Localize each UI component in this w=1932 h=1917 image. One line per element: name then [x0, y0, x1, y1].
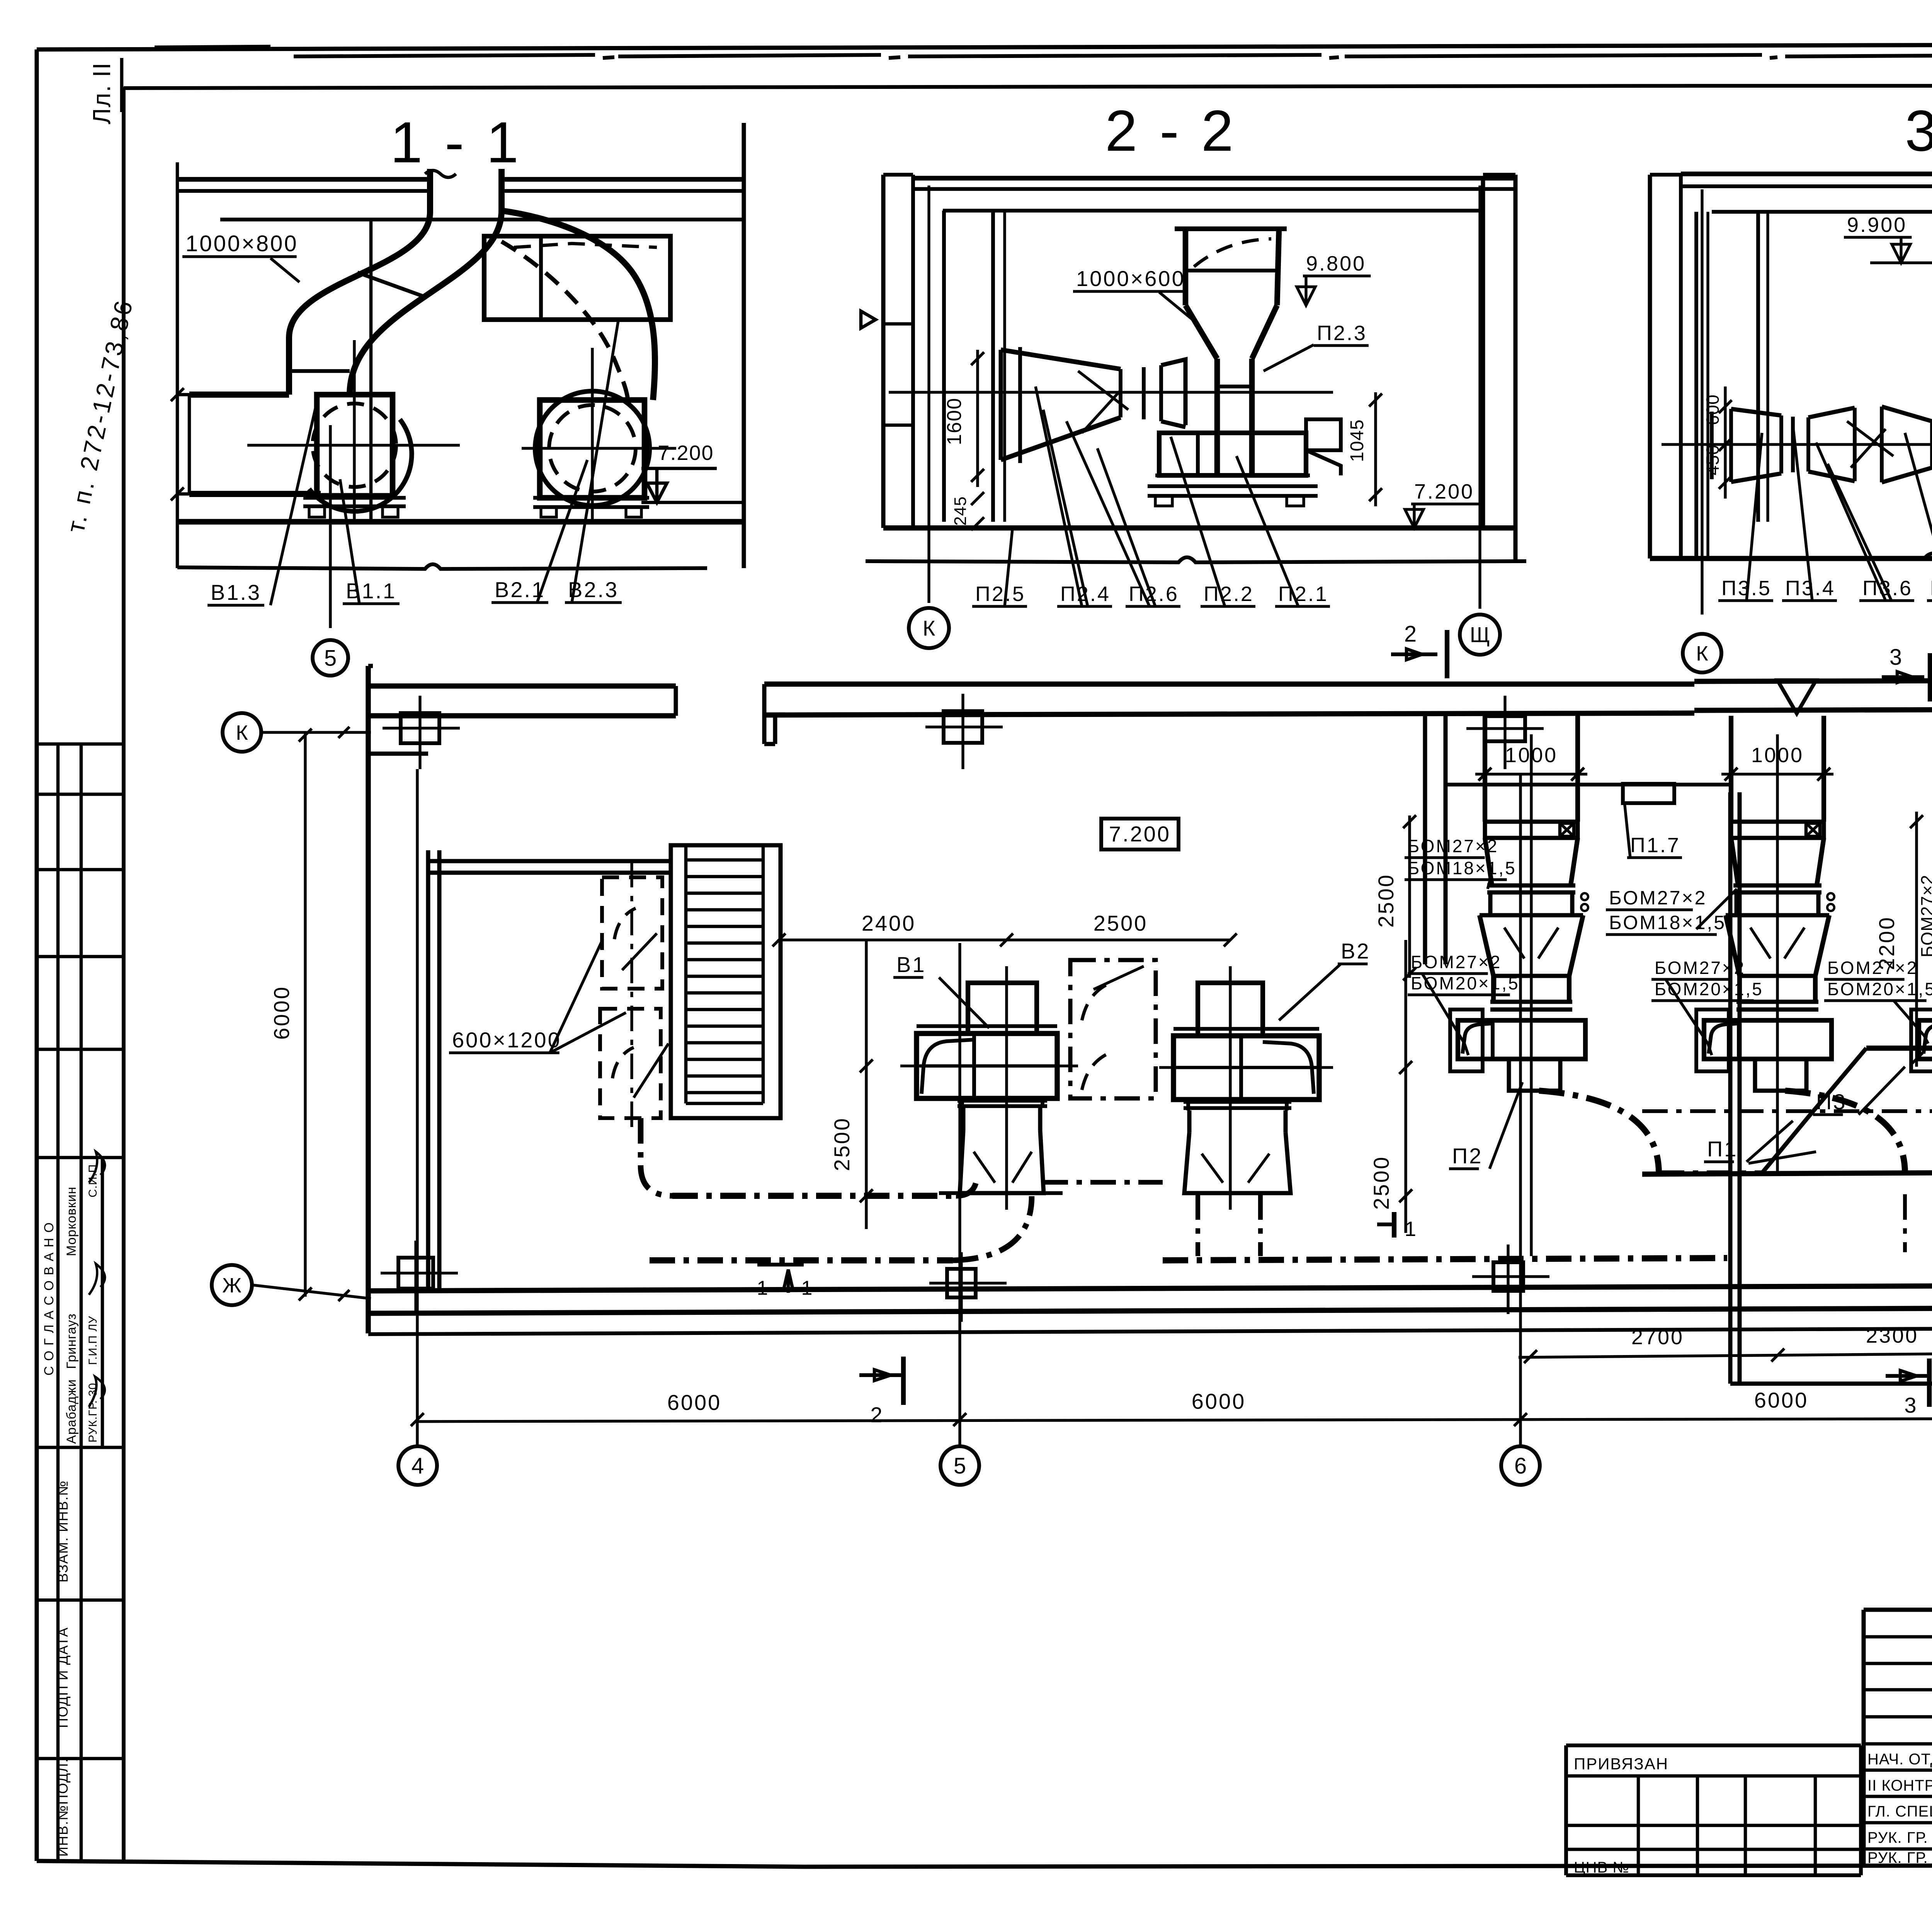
stair treads	[686, 858, 763, 862]
section 3-3 ceiling	[1681, 172, 1932, 176]
dim 2500 vertical V2	[1404, 940, 1407, 1233]
section 1-1 fan centerlines	[247, 444, 460, 446]
dim 2500 vertical V1	[865, 940, 867, 1229]
svg-text:3: 3	[1889, 645, 1903, 670]
svg-text:2500: 2500	[1374, 873, 1398, 928]
svg-text:П2.1: П2.1	[1278, 582, 1328, 606]
section 1-1 elbow flange joints	[357, 272, 427, 298]
left stamp column grid	[56, 744, 60, 1861]
top edge scan dashes	[155, 46, 270, 47]
svg-text:2500: 2500	[830, 1117, 854, 1171]
unit P2 fan block	[1458, 1020, 1585, 1059]
boxed level 7.200	[1101, 819, 1179, 850]
unit P1 fan side plate	[1696, 1010, 1729, 1071]
fan V2 centerlines	[1229, 966, 1231, 1210]
section 3-3 inlet diagonals	[1847, 421, 1893, 456]
svg-text:2: 2	[1404, 621, 1418, 647]
svg-text:Лл.: Лл.	[88, 84, 116, 124]
svg-text:1045: 1045	[1347, 419, 1367, 462]
svg-text:4: 4	[412, 1453, 424, 1478]
svg-text:1: 1	[757, 1277, 770, 1299]
section 1-1 right branch duct box	[484, 236, 670, 320]
section 1-1 fan B1.1 impeller dashed	[313, 403, 396, 487]
svg-text:1: 1	[801, 1277, 814, 1299]
plan column Zh5	[947, 1269, 976, 1297]
svg-text:В1.3: В1.3	[211, 580, 261, 604]
duct route from shafts vertical	[638, 1118, 644, 1165]
plan interior wall x1125	[426, 850, 430, 1291]
svg-text:БОМ27×2: БОМ27×2	[1827, 958, 1918, 978]
svg-text:Грингауз: Грингауз	[64, 1313, 79, 1369]
section 1-1 fan B2.1 base	[533, 496, 649, 500]
section 2-2 left wall	[881, 175, 886, 528]
shaft centerline	[630, 862, 633, 1132]
svg-text:6000: 6000	[1754, 1388, 1809, 1412]
cut mark 2 bottom	[859, 1373, 903, 1377]
unit P1 fan block	[1704, 1020, 1832, 1059]
svg-text:К: К	[236, 721, 248, 744]
fan V1 outlet diffuser	[960, 1130, 1044, 1193]
plan wall axis K lower line	[368, 713, 676, 718]
section 2-2 right wall	[1481, 178, 1485, 528]
fan V2 inlet stub	[1198, 983, 1263, 1036]
unit P2 duct from wall	[1483, 716, 1487, 822]
svg-text:2 - 2: 2 - 2	[1105, 98, 1236, 163]
svg-text:БОМ27×2: БОМ27×2	[1655, 958, 1745, 978]
svg-text:II: II	[88, 62, 116, 77]
duct route main upper	[672, 1193, 956, 1199]
dim 2400	[779, 938, 1007, 941]
section 1-1 floor line	[177, 519, 744, 525]
section 1-1 roof duct stub break	[425, 170, 456, 177]
section 2-2 diagonal leaders inside	[1078, 371, 1128, 410]
svg-text:П1: П1	[1707, 1137, 1738, 1161]
dim 6000 vertical left	[304, 732, 306, 1297]
section 1-1 duct elbow to B1 outer	[289, 212, 430, 395]
fan V1 inlet stub	[968, 983, 1037, 1033]
axis circle 4	[398, 1446, 437, 1485]
section 1-1 fan B2.1 scroll	[535, 391, 650, 506]
svg-text:Ж: Ж	[222, 1274, 241, 1297]
unit P2 upper taper	[1485, 838, 1492, 885]
svg-text:1: 1	[1405, 1217, 1418, 1241]
plan wall P-room left	[1423, 715, 1427, 964]
section 2-2 interior column lines	[942, 211, 946, 522]
svg-text:1000: 1000	[1505, 744, 1558, 767]
svg-text:II КОНТР.: II КОНТР.	[1867, 1777, 1932, 1794]
section 2-2 riser hidden damper	[1194, 239, 1271, 267]
svg-text:5: 5	[324, 645, 337, 671]
unit P3 fan side plate	[1911, 1010, 1932, 1071]
svg-text:БОМ27×2: БОМ27×2	[1609, 887, 1707, 909]
svg-text:К: К	[923, 616, 935, 640]
section 1-1 interior edge line	[369, 220, 373, 522]
fan V2 casing	[1173, 1036, 1319, 1100]
section 1-1 fan B2.1 right branch outer	[502, 211, 655, 400]
unit P1 centerline	[1776, 734, 1779, 1173]
fan V2 hidden duplicate dashed	[1070, 960, 1156, 1098]
fan V1 diffuser vanes	[974, 1152, 995, 1183]
svg-text:П3.6: П3.6	[1862, 577, 1913, 600]
unit P2 flange band	[1485, 822, 1578, 838]
duct route elbow lower to V1	[953, 1196, 1032, 1260]
fan V2 outlet duct	[1187, 1110, 1192, 1132]
section 1-1 right wall	[742, 123, 746, 568]
svg-text:С О Г Л А С О В А Н О: С О Г Л А С О В А Н О	[42, 1222, 56, 1376]
section 2-2 cone to throat	[1185, 305, 1217, 359]
duct route stair elbow	[641, 1165, 672, 1196]
cut mark 1 arrows bottom	[757, 1263, 804, 1267]
svg-text:т. п. 272-12-73,86: т. п. 272-12-73,86	[61, 296, 138, 535]
section 3-3 horizontal inlet train	[1710, 412, 1714, 479]
svg-text:5: 5	[954, 1453, 966, 1478]
section 1-1 dim ticks left	[177, 393, 201, 397]
svg-text:БОМ18×1,5: БОМ18×1,5	[1609, 912, 1726, 933]
route main from P units	[1659, 1170, 1762, 1175]
svg-text:П2: П2	[1452, 1144, 1483, 1168]
svg-text:БОМ27×2: БОМ27×2	[1411, 952, 1502, 972]
fan V1 casing	[917, 1033, 1057, 1098]
section 3-3 inlet centerline	[1662, 443, 1932, 446]
fan V2 flex connector	[1186, 1100, 1190, 1110]
unit P3 fan block	[1919, 1020, 1932, 1059]
section 1-1 right branch hidden lines	[514, 243, 657, 247]
svg-text:РУК.ГР. 30: РУК.ГР. 30	[87, 1383, 99, 1443]
svg-text:С.И.П: С.И.П	[87, 1164, 99, 1197]
svg-text:К: К	[1696, 642, 1708, 665]
section 2-2 axis Shch circle	[1460, 615, 1500, 655]
svg-text:БОМ27×2: БОМ27×2	[1408, 836, 1498, 856]
svg-text:600: 600	[1702, 394, 1723, 425]
svg-text:3: 3	[1904, 1393, 1918, 1417]
title block row lines	[1864, 1742, 1932, 1746]
svg-text:БОМ27×2: БОМ27×2	[1917, 875, 1932, 957]
plan column K5	[944, 711, 982, 743]
axis K line horizontal	[263, 731, 371, 734]
svg-text:ПОДП И ДАТА: ПОДП И ДАТА	[55, 1627, 71, 1728]
unit P1 flex1	[1733, 884, 1821, 888]
stamp signatures	[89, 1152, 105, 1183]
axis K circle plan	[223, 713, 261, 752]
fan V1 scroll curve	[922, 1040, 974, 1094]
unit P1 throat	[1740, 974, 1815, 978]
plan wall K door jambs	[674, 686, 678, 716]
section 1-1 axis 5 circle	[329, 425, 332, 628]
duct route lower main right	[1163, 1258, 1727, 1260]
unit P1 diffuser vanes	[1750, 928, 1770, 958]
fan V1 centerlines	[1005, 966, 1008, 1210]
svg-text:2300: 2300	[1866, 1324, 1918, 1347]
axis line 6	[1519, 775, 1522, 1445]
svg-text:ГЛ. СПЕЦ.: ГЛ. СПЕЦ.	[1867, 1803, 1932, 1820]
svg-text:П1.7: П1.7	[1630, 834, 1680, 857]
section 2-2 left triangle marker	[861, 311, 876, 328]
axis Zh line horizontal	[253, 1285, 371, 1299]
plan wall axis Zh	[368, 1284, 1932, 1291]
unit P1 outlet	[1755, 1059, 1806, 1091]
plan lower outer line	[368, 1326, 1932, 1334]
svg-text:2500: 2500	[1369, 1156, 1393, 1210]
small table verticals	[1637, 1776, 1640, 1875]
section 1-1 fan B1.1 casing	[317, 395, 393, 496]
unit P1 flex1 bolts	[1827, 893, 1834, 900]
svg-text:В2: В2	[1341, 939, 1371, 963]
section 2-2 axis K circle	[909, 608, 949, 648]
plan column K6	[1485, 716, 1525, 741]
title block upper rows	[1864, 1635, 1932, 1639]
svg-text:ИНВ.№ПОДЛ.: ИНВ.№ПОДЛ.	[55, 1758, 71, 1857]
svg-text:2500: 2500	[1094, 911, 1148, 935]
fan V2 scroll curve	[1263, 1042, 1314, 1094]
svg-text:П2.2: П2.2	[1204, 582, 1254, 606]
fan V2 outlet diffuser	[1184, 1132, 1291, 1193]
duct route elbow up to V1	[956, 1175, 977, 1196]
section 2-2 horizontal centerline	[889, 391, 1333, 393]
svg-text:1600: 1600	[943, 397, 966, 445]
section 1-1 fan B1.1 scroll	[309, 419, 412, 511]
svg-text:В1.1: В1.1	[346, 579, 396, 603]
dim 2200 right of P1	[1915, 812, 1918, 1067]
unit P2 centerline	[1530, 734, 1532, 1256]
plan right wing lower edge	[1730, 1382, 1932, 1386]
axis circle 5	[940, 1446, 979, 1485]
unit P2 outlet	[1509, 1059, 1560, 1091]
shaft 600x1200 upper dashed	[602, 877, 662, 989]
svg-text:6: 6	[1514, 1453, 1527, 1478]
svg-text:П2.5: П2.5	[975, 582, 1026, 606]
section 2-2 left inlet cone	[1001, 350, 1121, 369]
route centerline right wing vertical	[1903, 1194, 1907, 1252]
svg-text:НАЧ. ОТД.: НАЧ. ОТД.	[1867, 1751, 1932, 1768]
svg-text:6000: 6000	[667, 1390, 722, 1415]
svg-text:Г.И.П ЛУ: Г.И.П ЛУ	[87, 1316, 99, 1365]
grille P1.7 on wall	[1446, 783, 1730, 787]
section 3-3 floor line	[1650, 556, 1932, 561]
unit P1 flex2	[1736, 1000, 1818, 1004]
unit P2 flex2	[1490, 1000, 1572, 1004]
svg-text:9.800: 9.800	[1306, 252, 1366, 275]
title block outer	[1864, 1608, 1932, 1612]
svg-text:245: 245	[951, 496, 970, 526]
axis line 4	[416, 769, 418, 1445]
unit P2 dim 1000	[1475, 773, 1587, 775]
section 3-3 left wall	[1648, 175, 1652, 558]
svg-text:Морковкин: Морковкин	[64, 1187, 79, 1256]
stair enclosure	[671, 845, 781, 1118]
duct route below V2	[1043, 1180, 1163, 1185]
plan left wall	[366, 666, 371, 1333]
section 1-1 fan B2.1 casing	[540, 400, 645, 498]
unit P1 route arc	[1785, 1091, 1905, 1173]
plan wall x4490	[1728, 792, 1733, 1384]
svg-text:2200: 2200	[1874, 916, 1899, 970]
fan V2 diffuser vanes	[1202, 1154, 1223, 1183]
section 1-1 exhaust duct riser	[427, 169, 433, 212]
axis Zh circle plan	[212, 1265, 252, 1305]
cut mark T1 lower	[1392, 1212, 1396, 1238]
dim 2500 V1-V2	[1007, 938, 1230, 941]
svg-text:7.200: 7.200	[1414, 480, 1474, 503]
svg-text:7.200: 7.200	[658, 441, 714, 465]
sheet inner frame	[122, 87, 126, 1861]
svg-text:1000: 1000	[1751, 744, 1804, 767]
section 3-3 axis K line	[1701, 189, 1703, 615]
svg-text:1 - 1: 1 - 1	[390, 110, 522, 175]
svg-text:600×1200: 600×1200	[452, 1028, 561, 1052]
section 2-2 wall ledges	[883, 322, 913, 326]
dim row 2700 2300 750	[1519, 1353, 1932, 1357]
unit P1 flange band	[1731, 822, 1824, 838]
unit P2 flex1	[1487, 884, 1575, 888]
unit P2 route arc	[1539, 1091, 1659, 1173]
svg-text:П2.3: П2.3	[1317, 322, 1367, 345]
svg-text:7.200: 7.200	[1109, 822, 1171, 846]
section 3-3 axis K circle	[1683, 634, 1721, 672]
section 3-3 interior wall lines	[1694, 212, 1698, 557]
plan interior wall corridor	[368, 752, 428, 756]
section 2-2 inlet flanges	[1142, 367, 1146, 419]
unit P2 diffuser vanes	[1504, 928, 1524, 958]
svg-text:2400: 2400	[862, 911, 916, 935]
svg-text:6000: 6000	[269, 986, 294, 1040]
section 1-1 duct 1000x800 to left	[189, 392, 289, 398]
section 2-2 floor line	[883, 525, 1515, 530]
small table PRIVYAZAN	[1566, 1743, 1861, 1747]
svg-text:2700: 2700	[1631, 1326, 1684, 1349]
sheet outer border	[37, 43, 1932, 49]
section 2-2 axis K line	[927, 186, 930, 603]
plan column Zh4	[398, 1258, 433, 1289]
main dim line 6000s	[417, 1418, 1932, 1422]
duct route lower main	[650, 1257, 953, 1263]
svg-text:9.900: 9.900	[1847, 213, 1907, 237]
fan V1 outlet duct	[961, 1108, 966, 1130]
supply main duct solid	[1642, 1172, 1932, 1174]
svg-text:ПРИВЯЗАН: ПРИВЯЗАН	[1574, 1755, 1668, 1773]
section 1-1 left extension line	[176, 162, 179, 568]
svg-text:П3.2: П3.2	[1930, 577, 1932, 600]
section 3-3 down triangle mark	[1777, 680, 1816, 713]
plan wall axis K upper line	[368, 683, 676, 688]
plan column Zh6	[1493, 1262, 1523, 1291]
section 1-1 fan B1.1 base	[303, 496, 406, 500]
svg-text:3 - 3: 3 - 3	[1905, 98, 1932, 163]
svg-text:1000×800: 1000×800	[185, 231, 298, 256]
axis circle 6	[1501, 1446, 1540, 1485]
svg-text:1000×600: 1000×600	[1076, 266, 1185, 291]
section 2-2 axis Shch line	[1478, 186, 1481, 609]
svg-text:ВЗАМ. ИНВ.№: ВЗАМ. ИНВ.№	[55, 1480, 71, 1582]
unit P2 flex1 bolts	[1581, 893, 1588, 900]
fan V1 flex connector	[960, 1098, 964, 1108]
section 1-1 ceiling slab	[177, 177, 428, 182]
svg-text:В1: В1	[896, 952, 926, 977]
section 2-2 inlet to fan join	[1161, 359, 1185, 425]
plan column K4	[401, 713, 439, 743]
section 2-2 fan motor right	[1306, 419, 1341, 450]
section 2-2 ceiling	[913, 176, 1517, 180]
section 2-2 supply duct riser P2.3	[1183, 229, 1189, 305]
axis line 5	[958, 943, 961, 1445]
section 2-2 base frame	[1155, 473, 1310, 477]
stair rails	[684, 845, 688, 1103]
supply main centerline	[1642, 1109, 1932, 1113]
cut mark 3 bottom	[1886, 1374, 1929, 1378]
unit P2 fan side plate	[1450, 1010, 1483, 1071]
unit P1 diffuser	[1726, 913, 1829, 918]
svg-text:БОМ18×1,5: БОМ18×1,5	[1408, 858, 1517, 878]
unit P1 dim 1000	[1721, 773, 1833, 775]
unit P2 diffuser	[1480, 913, 1583, 918]
svg-text:Щ: Щ	[1470, 623, 1490, 647]
svg-text:6000: 6000	[1192, 1389, 1246, 1413]
svg-text:РУК. ГР.: РУК. ГР.	[1867, 1829, 1928, 1846]
svg-text:РУК. ГР.: РУК. ГР.	[1867, 1849, 1928, 1866]
svg-text:2: 2	[870, 1403, 884, 1427]
unit P2 throat	[1493, 974, 1569, 978]
section 1-1 duct elbow to B1 inner	[350, 211, 502, 395]
shaft 600x1200 lower dashed	[600, 1009, 661, 1118]
section 2-2 fan block	[1159, 433, 1306, 475]
unit P1 duct from wall	[1729, 716, 1733, 822]
unit P1 upper taper	[1731, 838, 1738, 885]
svg-text:Арабаджи: Арабаджи	[64, 1379, 79, 1444]
dim 2500 left of P2	[1408, 815, 1411, 978]
